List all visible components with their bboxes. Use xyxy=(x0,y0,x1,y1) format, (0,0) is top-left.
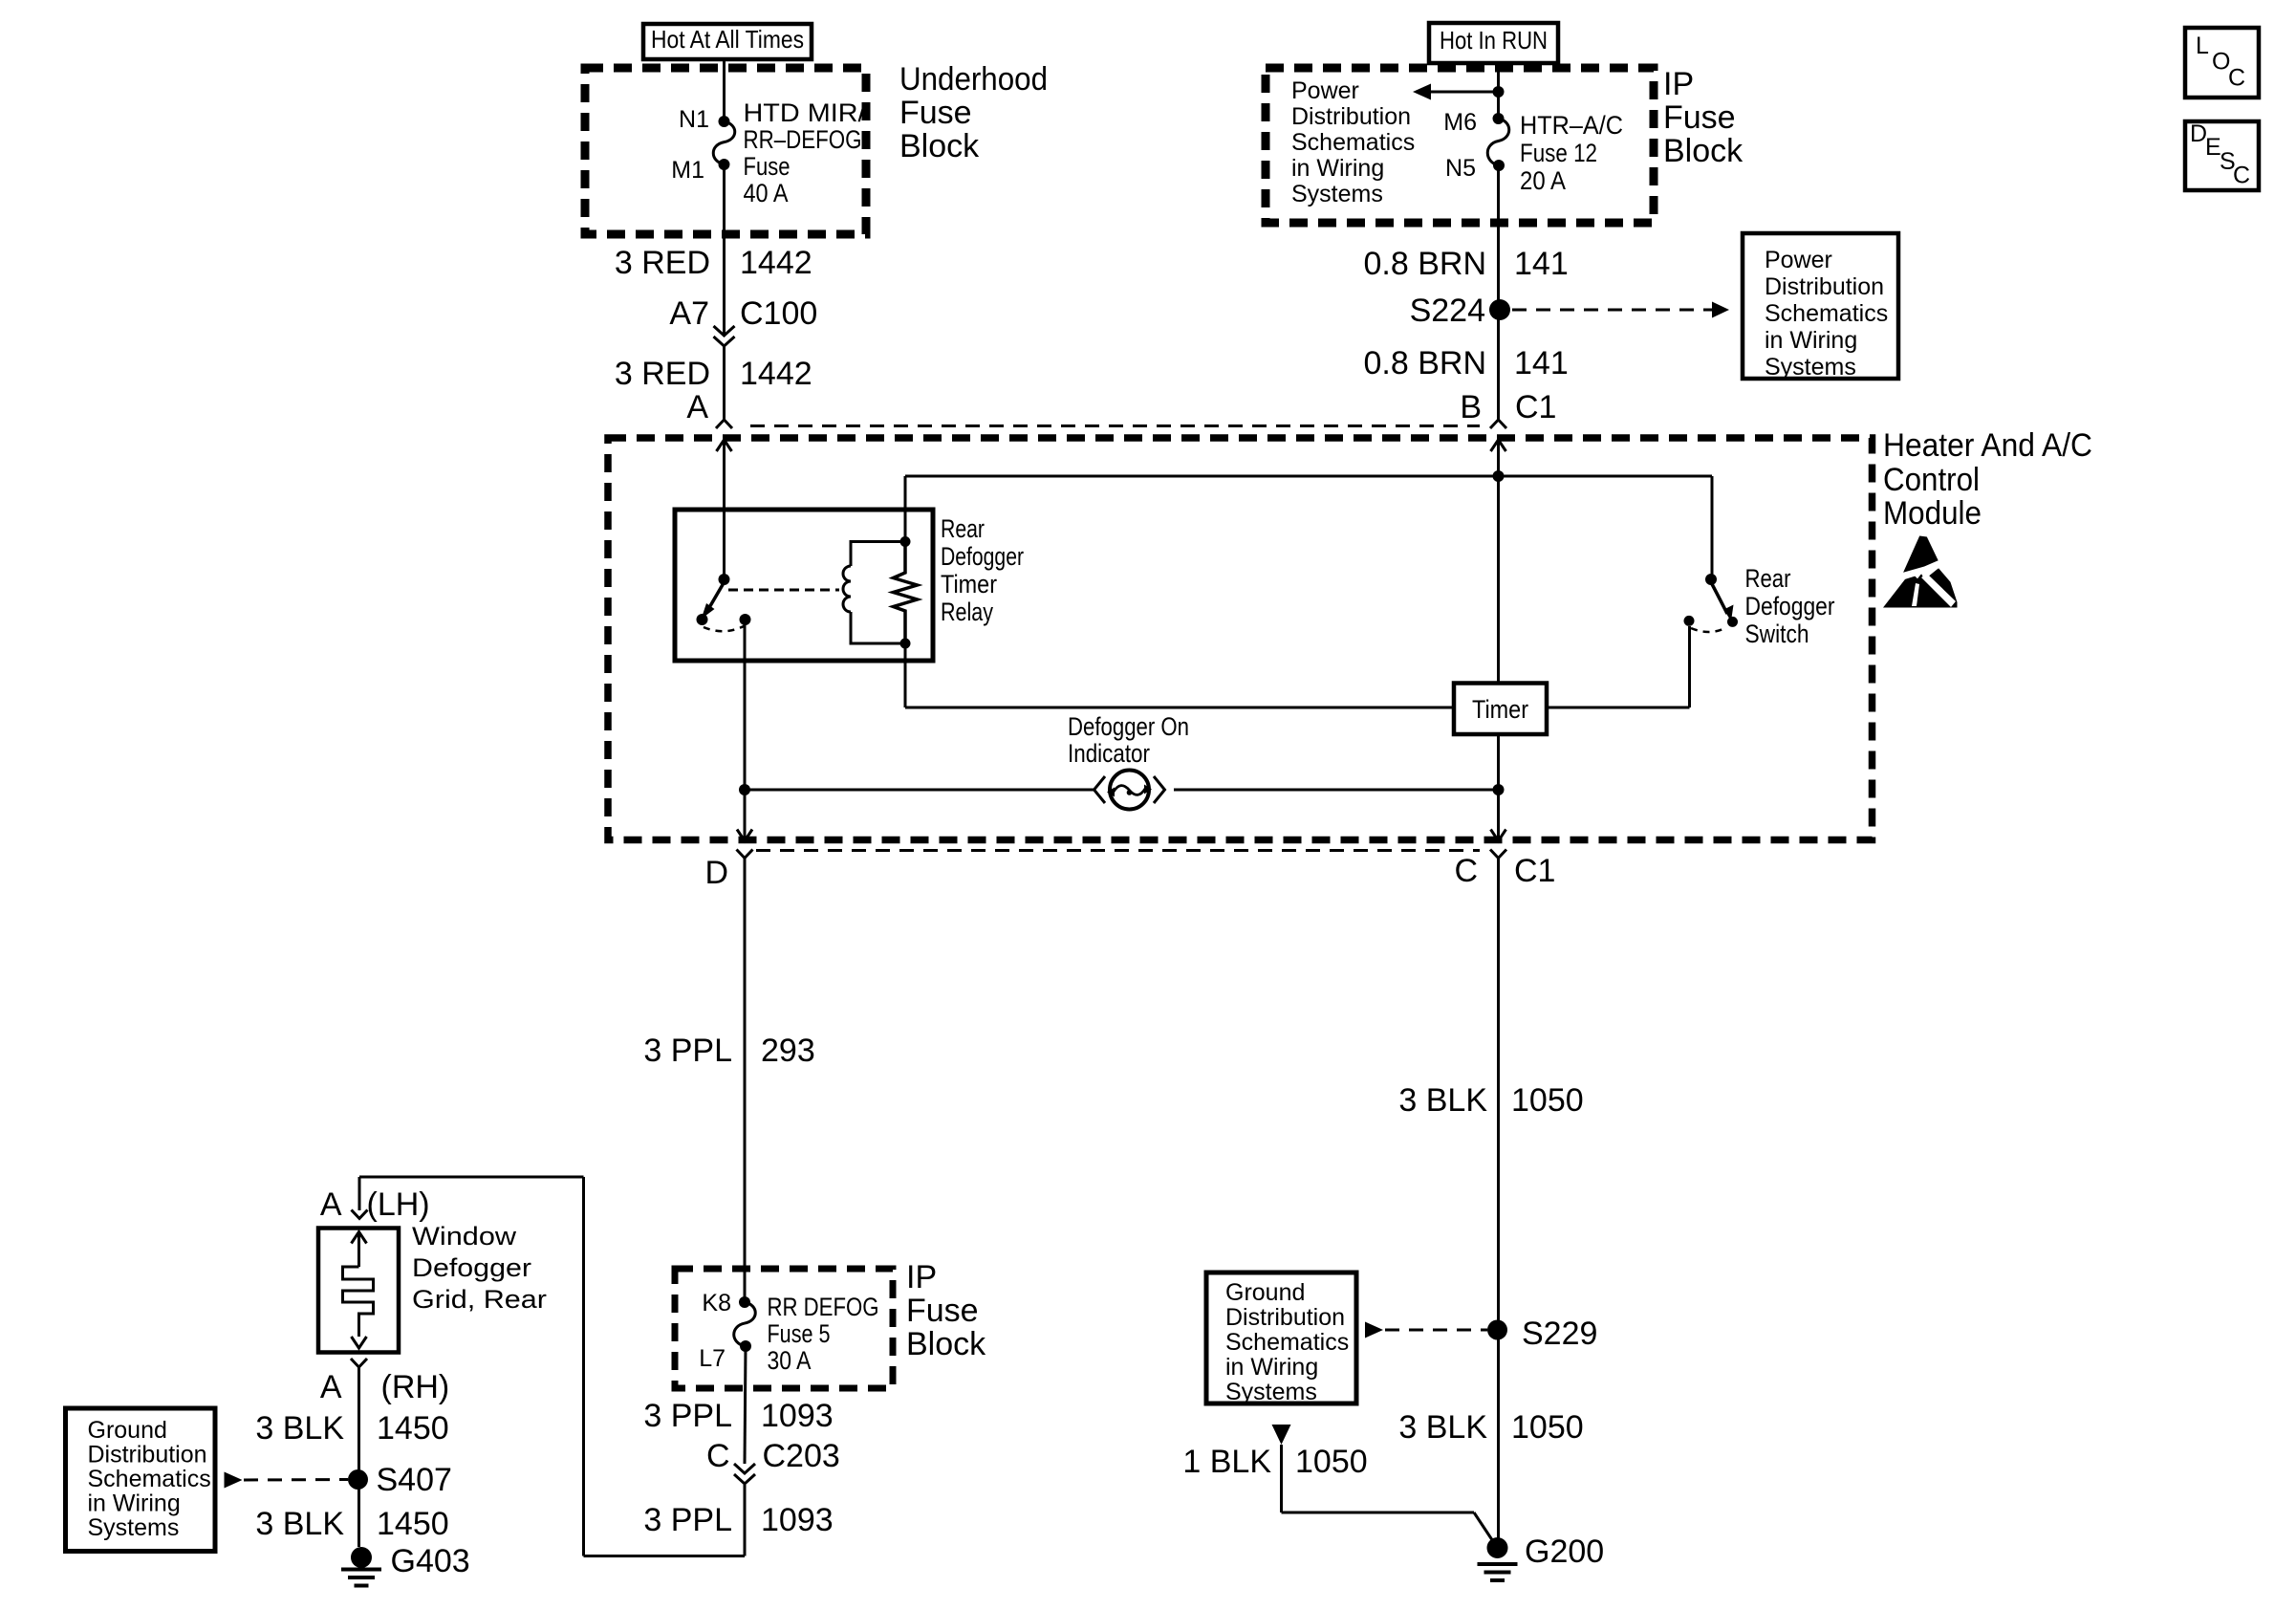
svg-text:3 PPL: 3 PPL xyxy=(643,1502,732,1538)
svg-text:1450: 1450 xyxy=(377,1410,449,1447)
svg-text:(RH): (RH) xyxy=(381,1369,450,1405)
svg-text:S224: S224 xyxy=(1410,293,1485,329)
svg-text:G403: G403 xyxy=(391,1543,470,1579)
svg-text:Systems: Systems xyxy=(1291,181,1383,207)
svg-text:D: D xyxy=(704,855,728,891)
svg-text:Timer: Timer xyxy=(941,570,997,598)
svg-text:HTD MIR/: HTD MIR/ xyxy=(744,98,867,127)
svg-text:Systems: Systems xyxy=(88,1514,180,1541)
svg-text:Rear: Rear xyxy=(941,514,985,543)
svg-text:B: B xyxy=(1460,389,1482,425)
svg-text:G200: G200 xyxy=(1525,1534,1604,1570)
svg-text:Heater And A/C: Heater And A/C xyxy=(1883,427,2092,464)
svg-text:3 PPL: 3 PPL xyxy=(643,1033,732,1069)
svg-text:Fuse 12: Fuse 12 xyxy=(1520,139,1597,167)
svg-text:Hot At All Times: Hot At All Times xyxy=(651,25,804,54)
svg-text:Timer: Timer xyxy=(1472,695,1528,724)
svg-text:Hot In RUN: Hot In RUN xyxy=(1440,26,1548,54)
svg-text:A: A xyxy=(320,1186,342,1223)
svg-text:3 BLK: 3 BLK xyxy=(1398,1082,1487,1119)
svg-text:L7: L7 xyxy=(699,1345,726,1372)
svg-text:141: 141 xyxy=(1514,345,1569,381)
svg-text:3 BLK: 3 BLK xyxy=(1398,1409,1487,1446)
svg-text:Fuse: Fuse xyxy=(1663,99,1736,136)
svg-text:Fuse: Fuse xyxy=(899,95,972,131)
svg-text:Distribution: Distribution xyxy=(1291,103,1411,130)
svg-text:Control: Control xyxy=(1883,462,1980,498)
svg-text:1050: 1050 xyxy=(1511,1082,1584,1119)
svg-text:1093: 1093 xyxy=(761,1398,834,1434)
svg-text:Distribution: Distribution xyxy=(1225,1304,1345,1331)
svg-text:Grid, Rear: Grid, Rear xyxy=(412,1285,547,1314)
svg-text:Schematics: Schematics xyxy=(1225,1329,1349,1356)
svg-text:Distribution: Distribution xyxy=(88,1442,207,1469)
svg-text:293: 293 xyxy=(761,1033,815,1069)
svg-text:0.8 BRN: 0.8 BRN xyxy=(1364,246,1487,282)
svg-text:C1: C1 xyxy=(1515,389,1556,425)
svg-text:C1: C1 xyxy=(1514,853,1555,889)
svg-text:3 PPL: 3 PPL xyxy=(643,1398,732,1434)
svg-text:A7: A7 xyxy=(669,295,709,332)
svg-text:N1: N1 xyxy=(679,106,709,133)
svg-text:Window: Window xyxy=(412,1222,517,1251)
svg-text:C: C xyxy=(2233,163,2250,189)
svg-text:HTR–A/C: HTR–A/C xyxy=(1520,111,1623,140)
svg-text:Fuse: Fuse xyxy=(744,152,791,181)
svg-text:A: A xyxy=(320,1369,342,1405)
svg-text:Defogger On: Defogger On xyxy=(1068,712,1189,741)
svg-text:Block: Block xyxy=(899,128,980,164)
svg-text:Power: Power xyxy=(1291,77,1359,104)
svg-text:L: L xyxy=(2196,33,2209,59)
svg-text:Module: Module xyxy=(1883,495,1982,532)
svg-text:0.8 BRN: 0.8 BRN xyxy=(1364,345,1487,381)
svg-text:Schematics: Schematics xyxy=(88,1466,211,1492)
svg-text:3 BLK: 3 BLK xyxy=(255,1410,344,1447)
svg-text:3 RED: 3 RED xyxy=(615,245,710,281)
svg-text:1093: 1093 xyxy=(761,1502,834,1538)
svg-text:C: C xyxy=(1454,853,1478,889)
svg-text:3 BLK: 3 BLK xyxy=(255,1506,344,1542)
svg-text:Schematics: Schematics xyxy=(1765,300,1888,327)
svg-text:Ground: Ground xyxy=(1225,1279,1305,1306)
svg-text:Relay: Relay xyxy=(941,598,993,626)
svg-text:in Wiring: in Wiring xyxy=(88,1490,181,1517)
svg-text:Defogger: Defogger xyxy=(412,1253,531,1282)
svg-text:RR DEFOG: RR DEFOG xyxy=(768,1293,879,1321)
svg-text:Schematics: Schematics xyxy=(1291,129,1415,156)
svg-text:S407: S407 xyxy=(377,1462,452,1498)
svg-text:C203: C203 xyxy=(763,1438,840,1474)
svg-text:Underhood: Underhood xyxy=(899,61,1048,98)
svg-text:Switch: Switch xyxy=(1745,620,1809,648)
svg-text:M1: M1 xyxy=(671,157,704,184)
svg-text:in Wiring: in Wiring xyxy=(1765,327,1857,354)
svg-text:Fuse 5: Fuse 5 xyxy=(768,1319,831,1348)
svg-text:Distribution: Distribution xyxy=(1765,273,1884,300)
svg-text:S229: S229 xyxy=(1522,1316,1597,1352)
svg-text:30 A: 30 A xyxy=(768,1346,812,1375)
svg-text:Defogger: Defogger xyxy=(1745,592,1835,620)
svg-text:1442: 1442 xyxy=(740,245,812,281)
svg-text:Systems: Systems xyxy=(1225,1379,1317,1405)
svg-text:IP: IP xyxy=(906,1259,937,1295)
svg-text:40 A: 40 A xyxy=(744,179,789,207)
svg-text:Power: Power xyxy=(1765,247,1832,273)
svg-text:1442: 1442 xyxy=(740,356,812,392)
svg-text:K8: K8 xyxy=(702,1290,731,1316)
svg-text:Block: Block xyxy=(906,1326,986,1362)
svg-text:M6: M6 xyxy=(1443,109,1477,136)
svg-text:1 BLK: 1 BLK xyxy=(1182,1444,1271,1480)
svg-text:C100: C100 xyxy=(740,295,817,332)
svg-text:C: C xyxy=(2228,65,2245,92)
svg-text:Block: Block xyxy=(1663,133,1744,169)
svg-text:A: A xyxy=(686,389,708,425)
svg-text:IP: IP xyxy=(1663,66,1694,102)
svg-text:N5: N5 xyxy=(1445,155,1476,182)
svg-text:1050: 1050 xyxy=(1295,1444,1368,1480)
svg-text:Systems: Systems xyxy=(1765,354,1856,381)
svg-text:Rear: Rear xyxy=(1745,564,1791,593)
svg-text:1450: 1450 xyxy=(377,1506,449,1542)
svg-text:(LH): (LH) xyxy=(367,1186,430,1223)
svg-text:Defogger: Defogger xyxy=(941,542,1024,571)
svg-text:3 RED: 3 RED xyxy=(615,356,710,392)
svg-text:Indicator: Indicator xyxy=(1068,739,1150,768)
svg-text:20 A: 20 A xyxy=(1520,166,1566,195)
svg-text:C: C xyxy=(706,1438,730,1474)
svg-text:Fuse: Fuse xyxy=(906,1293,979,1329)
svg-text:1050: 1050 xyxy=(1511,1409,1584,1446)
svg-text:RR–DEFOG: RR–DEFOG xyxy=(744,125,862,154)
svg-text:in Wiring: in Wiring xyxy=(1225,1354,1318,1381)
svg-text:Ground: Ground xyxy=(88,1417,167,1444)
svg-text:141: 141 xyxy=(1514,246,1569,282)
svg-text:in Wiring: in Wiring xyxy=(1291,155,1384,182)
